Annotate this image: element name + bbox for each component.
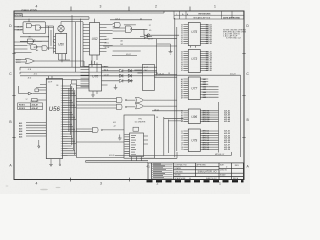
- svg-text:A01: A01: [19, 122, 22, 125]
- svg-text:MPU L9: MPU L9: [203, 149, 210, 151]
- svg-text:U50: U50: [58, 42, 64, 46]
- svg-text:A02: A02: [19, 125, 22, 128]
- svg-text:U96: U96: [191, 115, 197, 119]
- svg-text:U70: U70: [92, 74, 98, 78]
- svg-text:REV A: REV A: [233, 177, 239, 180]
- svg-text:REF DES: REF DES: [31, 101, 40, 103]
- svg-text:CONTRACT NO: CONTRACT NO: [175, 163, 188, 166]
- svg-text:SCALE NONE: SCALE NONE: [175, 177, 187, 180]
- svg-text:A2 05: A2 05: [104, 66, 109, 69]
- svg-text:SCALE: SCALE: [220, 174, 226, 177]
- svg-text:C9: C9: [181, 149, 183, 151]
- svg-text:U77: U77: [191, 87, 197, 91]
- svg-text:SIMULATOR: SIMULATOR: [21, 9, 36, 13]
- svg-text:DRAWN: DRAWN: [175, 167, 182, 170]
- svg-text:1: 1: [214, 5, 216, 9]
- svg-text:4J1-24: 4J1-24: [230, 73, 236, 75]
- svg-text:B4 11: B4 11: [104, 69, 109, 71]
- svg-text:IC PWR GND 14-7: IC PWR GND 14-7: [226, 37, 241, 39]
- svg-text:REV: REV: [235, 165, 240, 167]
- svg-text:2A6: 2A6: [203, 91, 206, 94]
- svg-text:DESCRIPTION: DESCRIPTION: [198, 17, 211, 19]
- svg-text:APPROVED: APPROVED: [197, 163, 207, 166]
- svg-text:2: 2: [155, 5, 157, 9]
- svg-text:4J1-07: 4J1-07: [17, 26, 23, 28]
- svg-text:C1 09: C1 09: [104, 74, 109, 76]
- svg-text:2: 2: [157, 181, 159, 185]
- svg-text:4: 4: [36, 181, 38, 185]
- svg-text:4J1-46: 4J1-46: [224, 120, 230, 123]
- svg-text:A4: A4: [36, 49, 38, 52]
- svg-text:3: 3: [100, 181, 102, 185]
- svg-text:2A1: 2A1: [203, 78, 206, 81]
- svg-text:ISSUED: ISSUED: [175, 175, 182, 177]
- svg-text:05: 05: [140, 18, 142, 20]
- svg-text:A2: A2: [121, 40, 123, 43]
- svg-text:A06: A06: [19, 136, 22, 139]
- svg-text:3C 04: 3C 04: [105, 47, 110, 49]
- svg-text:U75: U75: [191, 30, 197, 34]
- svg-text:4J1-10: 4J1-10: [206, 42, 212, 45]
- svg-text:U79: U79: [191, 139, 197, 143]
- svg-text:CLK 2: CLK 2: [115, 18, 120, 20]
- svg-text:B6: B6: [181, 121, 183, 123]
- svg-text:6: 6: [170, 51, 171, 53]
- svg-text:P/N: P/N: [138, 118, 142, 120]
- svg-text:ROM 2: ROM 2: [19, 108, 25, 110]
- svg-text:-12: -12: [113, 125, 116, 127]
- svg-text:A03: A03: [19, 127, 22, 130]
- svg-text:REVISIONS: REVISIONS: [199, 14, 211, 16]
- svg-text:2A7: 2A7: [203, 93, 206, 96]
- svg-text:4J1: 4J1: [113, 122, 116, 124]
- svg-text:3: 3: [100, 5, 102, 9]
- svg-text:E2: E2: [181, 70, 183, 72]
- svg-text:U73: U73: [191, 57, 197, 61]
- svg-text:SHEET 4 OF 7: SHEET 4 OF 7: [206, 178, 217, 180]
- svg-text:2A8: 2A8: [203, 96, 206, 99]
- svg-text:2A3: 2A3: [203, 83, 206, 86]
- svg-text:A05: A05: [19, 133, 22, 136]
- svg-text:ROM 1: ROM 1: [19, 105, 25, 107]
- svg-text:2B 11: 2B 11: [105, 43, 110, 45]
- svg-text:U52: U52: [92, 37, 98, 41]
- svg-text:E4 07: E4 07: [148, 39, 153, 41]
- svg-text:B4: B4: [121, 44, 123, 46]
- svg-text:1: 1: [176, 14, 177, 16]
- svg-text:A14-A7: A14-A7: [32, 107, 39, 110]
- svg-text:1: 1: [219, 181, 221, 185]
- svg-text:17: 17: [26, 99, 28, 101]
- svg-text:DWG NO: DWG NO: [220, 170, 228, 172]
- svg-text:A9: A9: [181, 97, 183, 100]
- svg-text:SIMULATOR, I/O: SIMULATOR, I/O: [197, 171, 216, 174]
- svg-text:4J1-31: 4J1-31: [109, 155, 115, 157]
- svg-text:A14-A7: A14-A7: [32, 104, 39, 107]
- svg-text:4J1-5: 4J1-5: [16, 62, 21, 64]
- svg-text:E2: E2: [181, 43, 183, 45]
- svg-text:MPU-BL 07: MPU-BL 07: [215, 154, 224, 156]
- svg-text:4J1-22: 4J1-22: [159, 73, 165, 75]
- svg-text:CHECKED: CHECKED: [175, 171, 184, 173]
- svg-text:DL DRIVER: DL DRIVER: [135, 122, 146, 124]
- svg-text:U56: U56: [49, 107, 61, 113]
- svg-text:A04: A04: [19, 130, 22, 133]
- svg-text:1K 02: 1K 02: [154, 109, 159, 111]
- svg-text:SCH NO: SCH NO: [14, 15, 22, 17]
- svg-text:1A 07: 1A 07: [105, 38, 110, 41]
- svg-text:4: 4: [36, 5, 38, 9]
- svg-text:4D 02: 4D 02: [126, 54, 131, 56]
- svg-text:2A2: 2A2: [203, 80, 206, 83]
- svg-text:DATE APPROVED: DATE APPROVED: [223, 17, 241, 20]
- svg-text:4J1-59: 4J1-59: [224, 148, 230, 151]
- svg-text:4J1-09: 4J1-09: [17, 29, 23, 31]
- svg-text:4J1-20: 4J1-20: [206, 69, 212, 72]
- svg-text:MPU K6: MPU K6: [203, 121, 210, 123]
- svg-text:2A5: 2A5: [203, 88, 206, 91]
